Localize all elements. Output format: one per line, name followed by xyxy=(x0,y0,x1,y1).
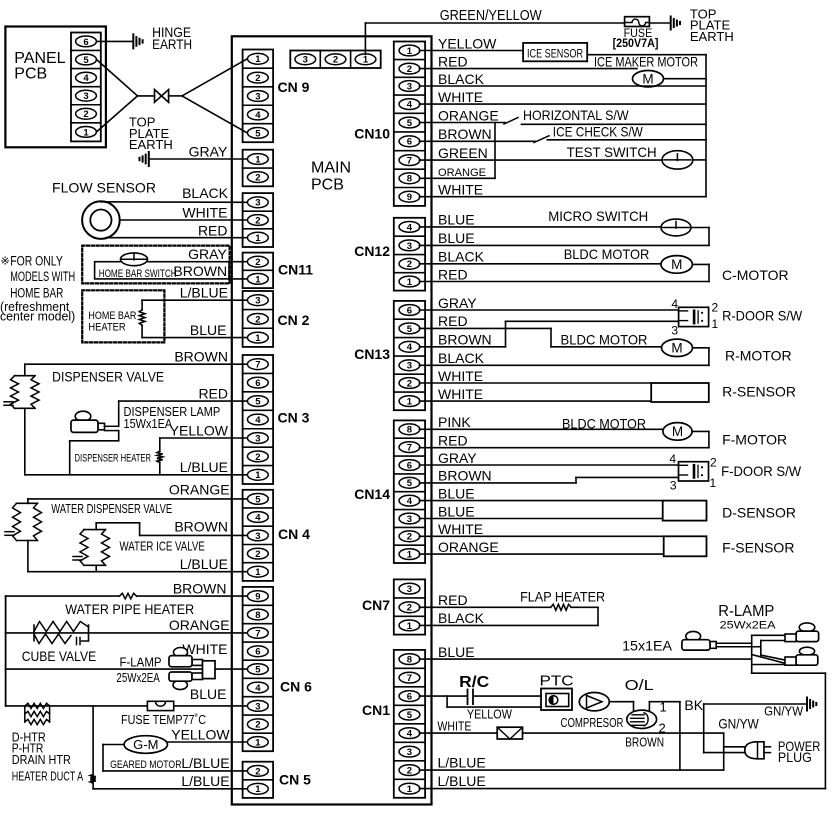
svg-text:3: 3 xyxy=(671,324,678,338)
svg-text:7: 7 xyxy=(255,628,260,639)
svg-text:CN12: CN12 xyxy=(354,243,390,259)
svg-text:O/L: O/L xyxy=(625,677,654,694)
svg-text:BROWN: BROWN xyxy=(438,126,492,142)
svg-text:BK: BK xyxy=(684,697,703,713)
svg-text:WATER PIPE HEATER: WATER PIPE HEATER xyxy=(65,601,194,617)
svg-text:2: 2 xyxy=(255,452,260,463)
svg-text:BLDC MOTOR: BLDC MOTOR xyxy=(562,416,646,432)
svg-text:CN13: CN13 xyxy=(354,346,390,362)
svg-text:1: 1 xyxy=(407,277,413,288)
svg-text:8: 8 xyxy=(407,425,412,436)
svg-text:7: 7 xyxy=(407,156,412,167)
svg-text:BLUE: BLUE xyxy=(438,503,475,519)
svg-text:※: ※ xyxy=(1,256,10,268)
svg-text:CN 5: CN 5 xyxy=(279,772,311,788)
svg-text:WHITE: WHITE xyxy=(438,89,483,105)
svg-text:F-MOTOR: F-MOTOR xyxy=(722,432,787,448)
svg-text:2: 2 xyxy=(710,456,717,470)
svg-text:MODELS WITH: MODELS WITH xyxy=(10,269,75,284)
svg-text:center model): center model) xyxy=(0,309,75,324)
svg-text:CN 2: CN 2 xyxy=(278,312,310,328)
svg-text:L/BLUE: L/BLUE xyxy=(438,773,486,789)
svg-text:R-DOOR S/W: R-DOOR S/W xyxy=(722,308,803,324)
svg-text:CN10: CN10 xyxy=(354,125,390,141)
svg-text:4: 4 xyxy=(407,100,413,111)
svg-text:1: 1 xyxy=(255,333,261,344)
svg-text:HEATER: HEATER xyxy=(88,322,125,334)
svg-text:COMPRESOR: COMPRESOR xyxy=(561,715,624,730)
svg-text:3: 3 xyxy=(407,361,412,372)
svg-text:1: 1 xyxy=(407,621,413,632)
svg-text:DRAIN HTR: DRAIN HTR xyxy=(12,752,71,767)
svg-text:1: 1 xyxy=(710,476,717,490)
svg-text:2: 2 xyxy=(255,314,260,325)
svg-text:PINK: PINK xyxy=(438,414,471,430)
svg-text:15Wx1EA: 15Wx1EA xyxy=(124,416,173,431)
svg-text:7: 7 xyxy=(407,673,412,684)
svg-text:CN 4: CN 4 xyxy=(278,526,310,542)
svg-text:1: 1 xyxy=(255,54,261,65)
svg-text:2: 2 xyxy=(407,766,412,777)
svg-text:BLACK: BLACK xyxy=(438,249,485,265)
svg-text:8: 8 xyxy=(255,610,260,621)
svg-text:15x1EA: 15x1EA xyxy=(622,638,673,654)
svg-text:CN1: CN1 xyxy=(362,702,390,718)
svg-text:4: 4 xyxy=(255,110,261,121)
svg-text:1: 1 xyxy=(255,737,261,748)
svg-text:M: M xyxy=(671,341,682,356)
svg-text:2: 2 xyxy=(255,720,260,731)
svg-text:ICE SENSOR: ICE SENSOR xyxy=(527,49,583,61)
svg-text:HEATER DUCT A: HEATER DUCT A xyxy=(12,769,84,784)
svg-text:3: 3 xyxy=(83,91,88,102)
svg-text:RED: RED xyxy=(438,313,468,329)
svg-text:YELLOW: YELLOW xyxy=(438,35,497,51)
svg-text:HORIZONTAL S/W: HORIZONTAL S/W xyxy=(523,107,629,123)
svg-text:4: 4 xyxy=(669,452,676,466)
svg-text:WHITE: WHITE xyxy=(438,368,483,384)
svg-text:4: 4 xyxy=(83,73,89,84)
svg-text:25Wx2EA: 25Wx2EA xyxy=(116,670,160,685)
svg-text:5: 5 xyxy=(83,55,89,66)
svg-text:3: 3 xyxy=(255,198,260,209)
svg-text:2: 2 xyxy=(83,109,88,120)
svg-text:5: 5 xyxy=(407,118,413,129)
svg-text:3: 3 xyxy=(255,296,260,307)
svg-text:1: 1 xyxy=(255,154,261,165)
svg-text:F-SENSOR: F-SENSOR xyxy=(722,540,794,556)
svg-text:BROWN: BROWN xyxy=(625,735,664,750)
svg-text:9: 9 xyxy=(255,592,260,603)
svg-text:1: 1 xyxy=(255,784,261,795)
svg-text:6: 6 xyxy=(255,378,260,389)
svg-text:4: 4 xyxy=(255,512,261,523)
svg-text:CN 6: CN 6 xyxy=(280,679,312,695)
svg-text:BLACK: BLACK xyxy=(182,185,229,201)
svg-text:3: 3 xyxy=(407,81,412,92)
svg-text:4: 4 xyxy=(407,342,413,353)
svg-text:2: 2 xyxy=(407,259,412,270)
svg-text:BLUE: BLUE xyxy=(190,322,227,338)
svg-text:GRAY: GRAY xyxy=(438,450,477,466)
svg-text:GN/YW: GN/YW xyxy=(718,716,759,732)
svg-text:CN11: CN11 xyxy=(278,262,313,278)
svg-text:L/BLUE: L/BLUE xyxy=(180,556,228,572)
svg-text:M: M xyxy=(672,424,683,439)
svg-text:L/BLUE: L/BLUE xyxy=(180,459,228,475)
svg-text:M: M xyxy=(671,257,682,272)
svg-text:TEST SWITCH: TEST SWITCH xyxy=(567,144,657,160)
svg-text:CN7: CN7 xyxy=(362,597,390,613)
svg-text:BLUE: BLUE xyxy=(438,485,475,501)
svg-text:5: 5 xyxy=(407,324,413,335)
svg-text:F-DOOR S/W: F-DOOR S/W xyxy=(721,463,802,479)
svg-text:M: M xyxy=(642,72,653,87)
svg-text:1: 1 xyxy=(255,274,261,285)
svg-text:HOME BAR: HOME BAR xyxy=(88,310,136,322)
svg-text:YELLOW: YELLOW xyxy=(467,707,513,722)
svg-text:3: 3 xyxy=(407,241,412,252)
svg-text:YELLOW: YELLOW xyxy=(170,422,229,438)
svg-text:GN/YW: GN/YW xyxy=(764,704,804,719)
svg-text:EARTH: EARTH xyxy=(152,36,192,52)
svg-text:5: 5 xyxy=(255,397,261,408)
svg-text:3: 3 xyxy=(407,747,412,758)
svg-text:5: 5 xyxy=(255,665,261,676)
svg-text:5: 5 xyxy=(255,494,261,505)
svg-text:BLUE: BLUE xyxy=(438,644,475,660)
svg-text:ICE MAKER MOTOR: ICE MAKER MOTOR xyxy=(594,54,698,70)
svg-text:ORANGE: ORANGE xyxy=(438,107,499,123)
svg-text:ICE CHECK S/W: ICE CHECK S/W xyxy=(553,124,644,140)
svg-text:2: 2 xyxy=(712,301,719,315)
svg-text:C-MOTOR: C-MOTOR xyxy=(722,267,789,283)
svg-text:BLDC MOTOR: BLDC MOTOR xyxy=(564,246,650,262)
svg-text:R-SENSOR: R-SENSOR xyxy=(722,384,796,400)
svg-text:GRAY: GRAY xyxy=(438,295,477,311)
svg-text:3: 3 xyxy=(255,531,260,542)
svg-text:8: 8 xyxy=(407,655,412,666)
svg-text:6: 6 xyxy=(407,305,412,316)
svg-text:RED: RED xyxy=(438,592,468,608)
svg-text:1: 1 xyxy=(407,550,413,561)
svg-text:WHITE: WHITE xyxy=(182,204,227,220)
svg-text:BLUE: BLUE xyxy=(438,230,475,246)
svg-text:WHITE: WHITE xyxy=(182,641,227,657)
svg-text:BROWN: BROWN xyxy=(174,519,228,535)
svg-text:[250V7A]: [250V7A] xyxy=(613,36,659,50)
svg-text:1: 1 xyxy=(255,470,261,481)
svg-text:RED: RED xyxy=(438,53,468,69)
svg-text:1: 1 xyxy=(407,397,413,408)
svg-text:BLACK: BLACK xyxy=(438,610,485,626)
svg-text:1: 1 xyxy=(407,46,413,57)
svg-text:BROWN: BROWN xyxy=(174,349,228,365)
svg-text:PTC: PTC xyxy=(540,673,574,690)
svg-text:4: 4 xyxy=(407,496,413,507)
svg-text:RED: RED xyxy=(198,223,228,239)
svg-text:2: 2 xyxy=(255,257,260,268)
svg-text:BROWN: BROWN xyxy=(173,580,227,596)
svg-text:R-LAMP: R-LAMP xyxy=(718,603,774,620)
svg-text:25Wx2EA: 25Wx2EA xyxy=(720,620,777,632)
svg-text:WHITE: WHITE xyxy=(438,386,483,402)
svg-text:2: 2 xyxy=(255,549,260,560)
svg-text:RED: RED xyxy=(438,433,468,449)
svg-text:2: 2 xyxy=(407,64,412,75)
svg-text:4: 4 xyxy=(671,297,678,311)
svg-text:4: 4 xyxy=(255,683,261,694)
svg-text:RED: RED xyxy=(438,266,468,282)
svg-text:2: 2 xyxy=(255,173,260,184)
svg-text:GRAY: GRAY xyxy=(189,144,228,160)
svg-text:1: 1 xyxy=(255,567,261,578)
svg-text:7: 7 xyxy=(255,360,260,371)
svg-text:2: 2 xyxy=(255,73,260,84)
svg-text:BROWN: BROWN xyxy=(173,263,227,279)
svg-text:WATER DISPENSER VALVE: WATER DISPENSER VALVE xyxy=(51,501,172,516)
svg-text:3: 3 xyxy=(407,584,412,595)
svg-text:6: 6 xyxy=(83,37,88,48)
svg-text:HOME BAR SWITCH: HOME BAR SWITCH xyxy=(99,268,177,280)
svg-text:CN14: CN14 xyxy=(354,486,390,502)
svg-text:FLOW SENSOR: FLOW SENSOR xyxy=(52,180,156,196)
svg-text:1: 1 xyxy=(255,233,261,244)
svg-text:FOR ONLY: FOR ONLY xyxy=(10,254,63,269)
svg-text:WATER ICE VALVE: WATER ICE VALVE xyxy=(120,539,206,554)
svg-text:FLAP HEATER: FLAP HEATER xyxy=(520,589,605,605)
svg-text:WHITE: WHITE xyxy=(437,718,471,733)
svg-text:R/C: R/C xyxy=(459,674,489,691)
svg-text:7: 7 xyxy=(407,443,412,454)
svg-text:MAIN: MAIN xyxy=(311,160,351,177)
svg-text:6: 6 xyxy=(255,647,260,658)
svg-text:YELLOW: YELLOW xyxy=(171,727,230,743)
svg-text:6: 6 xyxy=(407,692,412,703)
svg-text:G-M: G-M xyxy=(133,737,158,752)
svg-text:CUBE VALVE: CUBE VALVE xyxy=(22,648,97,664)
svg-text:ORANGE: ORANGE xyxy=(169,617,230,633)
svg-text:RED: RED xyxy=(198,385,228,401)
svg-text:8: 8 xyxy=(407,174,412,185)
svg-text:GREEN/YELLOW: GREEN/YELLOW xyxy=(440,7,543,24)
svg-text:L/BLUE: L/BLUE xyxy=(181,773,229,789)
svg-text:BROWN: BROWN xyxy=(438,468,492,484)
svg-text:WHITE: WHITE xyxy=(438,521,483,537)
svg-text:L/BLUE: L/BLUE xyxy=(181,755,229,771)
svg-text:MICRO SWITCH: MICRO SWITCH xyxy=(548,208,648,224)
svg-text:GREEN: GREEN xyxy=(438,145,488,161)
svg-text:4: 4 xyxy=(407,729,413,740)
svg-text:4: 4 xyxy=(255,415,261,426)
svg-text:1: 1 xyxy=(407,784,413,795)
svg-text:FUSE TEMP77˚C: FUSE TEMP77˚C xyxy=(121,712,206,727)
svg-text:2: 2 xyxy=(333,55,338,66)
svg-text:GEARED MOTOR: GEARED MOTOR xyxy=(110,759,181,771)
svg-text:1: 1 xyxy=(83,127,89,138)
svg-text:D-SENSOR: D-SENSOR xyxy=(722,505,796,521)
svg-text:PCB: PCB xyxy=(311,177,344,194)
svg-text:GRAY: GRAY xyxy=(188,246,227,262)
svg-text:3: 3 xyxy=(670,479,677,493)
svg-text:2: 2 xyxy=(407,378,412,389)
svg-text:ORANGE: ORANGE xyxy=(438,167,486,179)
svg-text:1: 1 xyxy=(712,317,719,331)
svg-text:BLDC MOTOR: BLDC MOTOR xyxy=(561,332,648,348)
svg-text:2: 2 xyxy=(255,766,260,777)
svg-text:BLUE: BLUE xyxy=(190,686,227,702)
svg-text:3: 3 xyxy=(255,433,260,444)
svg-text:F-LAMP: F-LAMP xyxy=(120,655,162,670)
svg-text:BLACK: BLACK xyxy=(438,350,485,366)
svg-text:5: 5 xyxy=(255,128,261,139)
svg-text:3: 3 xyxy=(255,91,260,102)
svg-text:4: 4 xyxy=(407,222,413,233)
svg-text:PCB: PCB xyxy=(14,66,47,83)
svg-text:CN 3: CN 3 xyxy=(278,410,310,426)
svg-text:L/BLUE: L/BLUE xyxy=(180,285,228,301)
svg-text:WHITE: WHITE xyxy=(438,182,483,198)
svg-text:ORANGE: ORANGE xyxy=(169,482,230,498)
svg-text:5: 5 xyxy=(407,710,413,721)
svg-text:6: 6 xyxy=(407,460,412,471)
svg-text:PLUG: PLUG xyxy=(778,749,812,765)
svg-text:EARTH: EARTH xyxy=(690,29,734,44)
svg-text:9: 9 xyxy=(407,192,412,203)
svg-text:2: 2 xyxy=(255,215,260,226)
svg-text:DISPENSER HEATER: DISPENSER HEATER xyxy=(75,453,152,465)
svg-text:PANEL: PANEL xyxy=(14,50,65,67)
svg-text:BLACK: BLACK xyxy=(438,71,485,87)
svg-text:L/BLUE: L/BLUE xyxy=(438,754,486,770)
svg-text:R-MOTOR: R-MOTOR xyxy=(725,348,792,364)
svg-text:CN 9: CN 9 xyxy=(278,79,310,95)
svg-text:DISPENSER VALVE: DISPENSER VALVE xyxy=(52,369,164,385)
svg-text:BLUE: BLUE xyxy=(438,212,475,228)
svg-text:2: 2 xyxy=(407,603,412,614)
svg-text:3: 3 xyxy=(303,55,308,66)
svg-text:1: 1 xyxy=(660,700,667,715)
svg-text:BROWN: BROWN xyxy=(438,332,492,348)
svg-text:EARTH: EARTH xyxy=(129,137,173,152)
svg-text:ORANGE: ORANGE xyxy=(438,539,499,555)
svg-text:2: 2 xyxy=(407,532,412,543)
svg-text:3: 3 xyxy=(255,701,260,712)
svg-text:5: 5 xyxy=(407,478,413,489)
svg-text:3: 3 xyxy=(407,514,412,525)
svg-text:6: 6 xyxy=(407,137,412,148)
svg-text:1: 1 xyxy=(363,55,369,66)
